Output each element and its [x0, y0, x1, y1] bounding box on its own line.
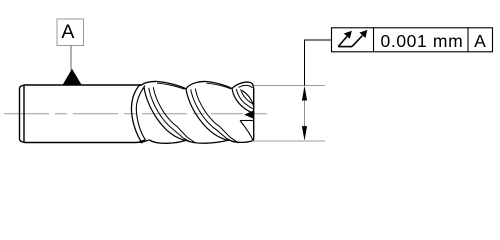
dimension arrow down [302, 126, 307, 141]
datum triangle [63, 69, 82, 85]
dimension shaft gray [304, 99, 306, 128]
flute entry arc inner [136, 86, 145, 140]
extension line bottom (OD lower) [253, 140, 326, 142]
datum box A [57, 19, 84, 46]
leader elbow to FCF [305, 40, 332, 86]
bottom scallop 1 [149, 140, 186, 144]
shank-to-flute bottom junction [137, 140, 149, 143]
end face lower tooth line [240, 120, 254, 122]
flute section of end mill [131, 81, 256, 143]
bottom scallop 2 [186, 140, 229, 143]
helix band 3 [232, 89, 257, 114]
datum stem [70, 45, 72, 70]
feature control frame [332, 28, 493, 52]
helix band 1 [144, 87, 196, 143]
end face line [252, 87, 255, 141]
centerline (axis of end mill) [4, 113, 267, 115]
end gash triangle [246, 111, 254, 118]
extension line top (OD upper) [253, 85, 326, 87]
land margin line under top scallop 1 [157, 83, 185, 89]
land margin line under top scallop 2 [207, 83, 231, 89]
svg-text:A: A [474, 31, 486, 51]
top scallop 2 [186, 81, 232, 88]
dimension arrow up [302, 86, 307, 101]
end face lower leaf [240, 121, 253, 141]
svg-text:0.001 mm: 0.001 mm [381, 31, 464, 51]
top scallop 3 (corner) [232, 82, 253, 89]
svg-text:A: A [61, 21, 74, 43]
helix band 2 [186, 89, 239, 143]
total runout symbol [338, 36, 362, 47]
top scallop 1 [141, 81, 187, 88]
corner leaf inner line [239, 85, 253, 87]
flute entry arc outer [131, 84, 142, 143]
end face upper leaf [242, 91, 254, 107]
bottom scallop 3 [229, 140, 253, 142]
shank outline [20, 85, 146, 143]
